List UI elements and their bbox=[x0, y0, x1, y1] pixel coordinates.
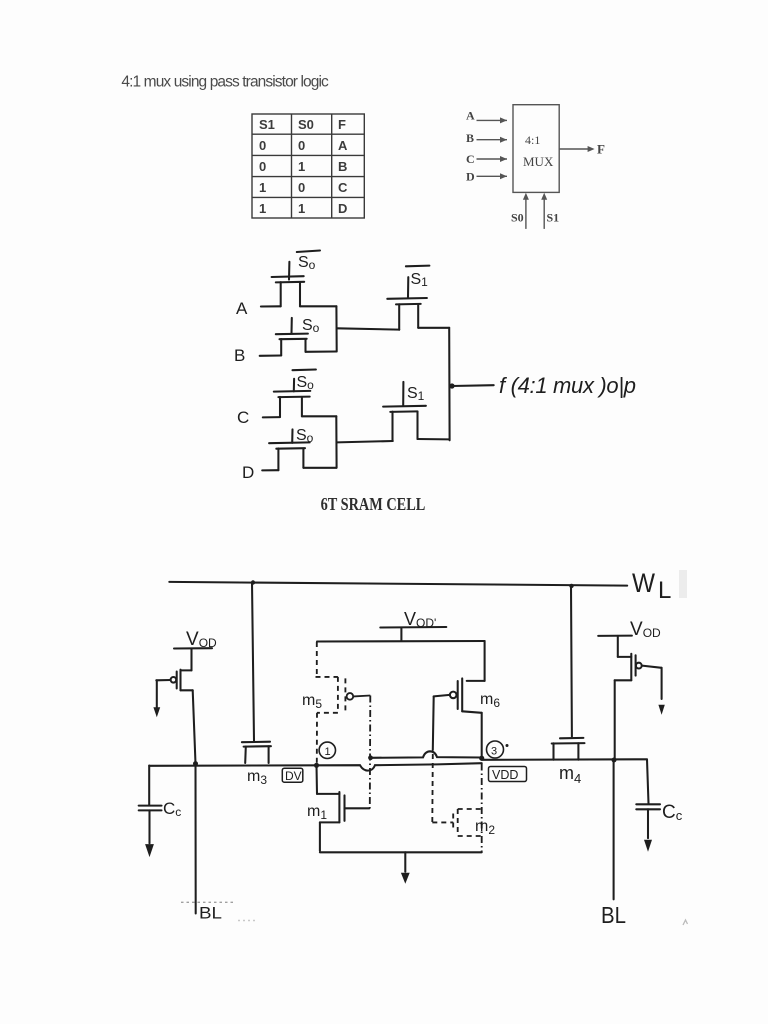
svg-text:C: C bbox=[237, 408, 249, 427]
svg-text:1: 1 bbox=[298, 201, 305, 216]
svg-text:C: C bbox=[338, 180, 348, 195]
svg-text:0: 0 bbox=[259, 138, 266, 153]
svg-text:B: B bbox=[466, 131, 474, 145]
svg-text:4:1: 4:1 bbox=[525, 133, 540, 147]
svg-text:1: 1 bbox=[259, 201, 266, 216]
svg-text:D: D bbox=[242, 463, 254, 482]
svg-text:F: F bbox=[597, 142, 605, 157]
svg-text:L: L bbox=[658, 577, 671, 604]
svg-text:D: D bbox=[466, 170, 475, 184]
svg-text:S1: S1 bbox=[259, 117, 275, 132]
svg-text:B: B bbox=[338, 159, 347, 174]
svg-text:B: B bbox=[234, 346, 245, 365]
svg-text:BL: BL bbox=[199, 905, 222, 923]
svg-text:4:1 mux using pass transistor: 4:1 mux using pass transistor logic bbox=[121, 73, 329, 90]
svg-text:A: A bbox=[236, 299, 248, 318]
svg-text:A: A bbox=[466, 109, 475, 123]
svg-text:A: A bbox=[338, 138, 348, 153]
svg-text:3: 3 bbox=[491, 746, 497, 758]
svg-text:f (4:1 mux )o|p: f (4:1 mux )o|p bbox=[499, 373, 636, 398]
svg-text:W: W bbox=[632, 568, 655, 598]
svg-text:S1: S1 bbox=[547, 211, 560, 225]
svg-text:VDD: VDD bbox=[492, 768, 518, 782]
svg-text:0: 0 bbox=[298, 180, 305, 195]
svg-text:F: F bbox=[338, 117, 346, 132]
svg-text:MUX: MUX bbox=[523, 154, 554, 169]
svg-text:C: C bbox=[466, 152, 475, 166]
svg-text:1: 1 bbox=[259, 180, 266, 195]
svg-text:DV: DV bbox=[285, 769, 302, 783]
svg-text:S0: S0 bbox=[298, 117, 314, 132]
svg-text:1: 1 bbox=[325, 746, 331, 758]
svg-text:1: 1 bbox=[298, 159, 305, 174]
svg-text:0: 0 bbox=[298, 138, 305, 153]
svg-text:0: 0 bbox=[259, 159, 266, 174]
svg-text:6T SRAM CELL: 6T SRAM CELL bbox=[321, 494, 426, 514]
svg-text:S0: S0 bbox=[511, 211, 524, 225]
svg-text:BL: BL bbox=[601, 902, 626, 928]
svg-text:D: D bbox=[338, 201, 347, 216]
